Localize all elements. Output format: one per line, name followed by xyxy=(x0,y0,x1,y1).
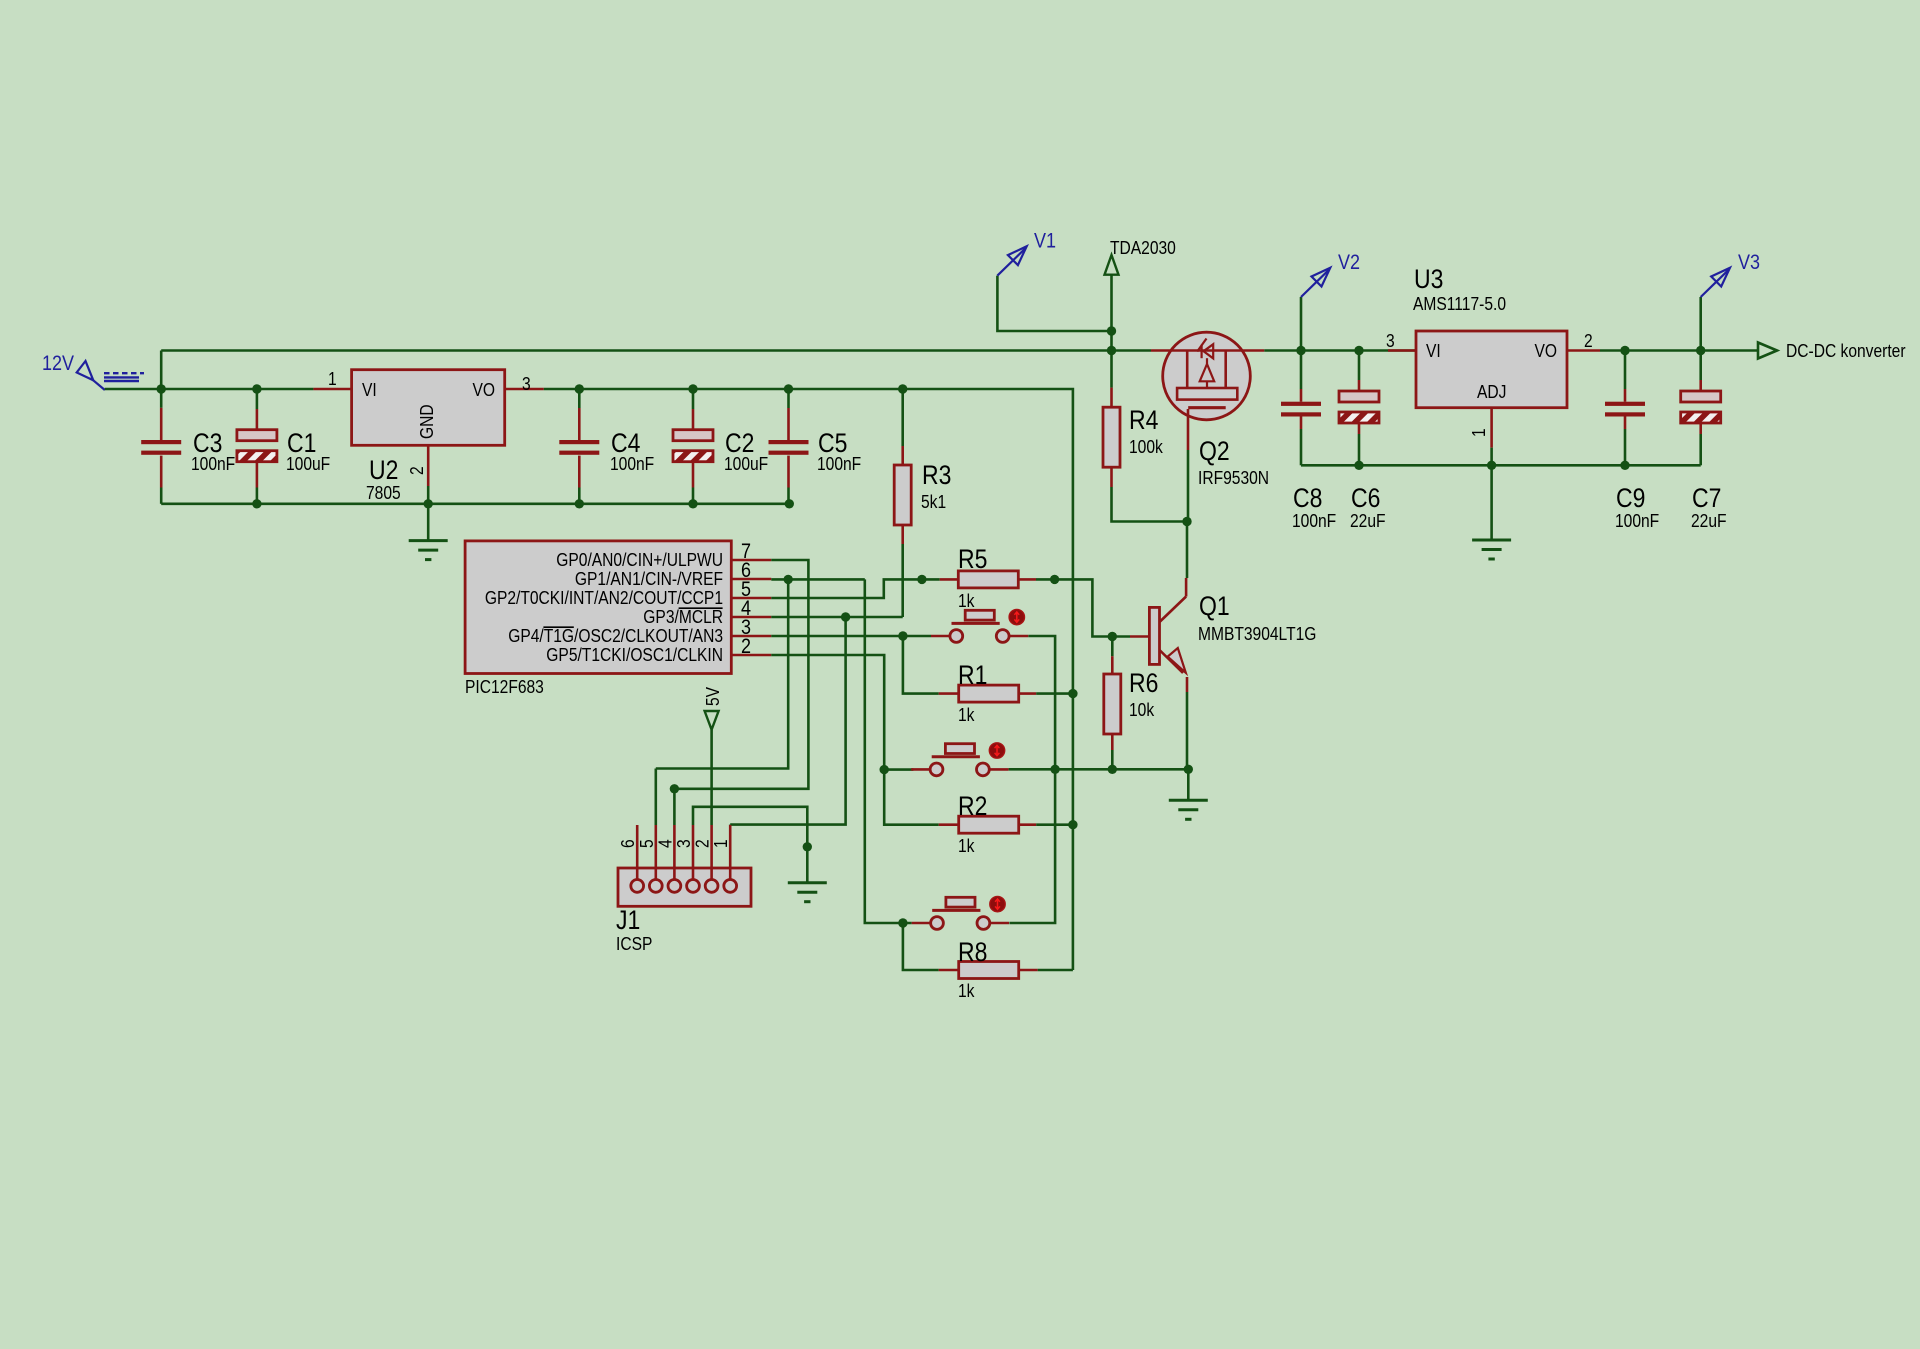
svg-text:6: 6 xyxy=(618,839,638,848)
wire GP3 row xyxy=(771,616,902,619)
wire bottom ground rail xyxy=(161,502,789,505)
resistor R6 xyxy=(1111,637,1114,657)
node button3/R8 xyxy=(898,918,907,927)
capacitor C2 xyxy=(692,389,695,409)
wire J1 pin4 stub xyxy=(654,769,657,826)
svg-text:VO: VO xyxy=(1534,341,1557,361)
svg-text:J1: J1 xyxy=(616,905,640,935)
probe V3 wire xyxy=(1699,297,1702,351)
svg-text:100nF: 100nF xyxy=(610,454,654,474)
wire rail Q2 to U3 xyxy=(1264,349,1416,352)
node rail R4 xyxy=(1107,346,1116,355)
node Q1 emitter xyxy=(1184,765,1193,774)
node C6 top xyxy=(1354,346,1363,355)
svg-text:100nF: 100nF xyxy=(191,454,235,474)
J1 pin 4 pad xyxy=(668,880,681,893)
PIC pin 5 stub xyxy=(731,597,771,600)
wire GND row xyxy=(1009,768,1189,771)
node C5 top xyxy=(784,384,793,393)
power arrow 5V xyxy=(705,711,719,730)
probe V2 xyxy=(1301,270,1329,297)
wire U3 pin3 lead xyxy=(1388,349,1416,352)
node GP3/MCLR xyxy=(841,612,850,621)
node button2/button1 xyxy=(1050,765,1059,774)
svg-text:R3: R3 xyxy=(922,460,951,490)
J1 pin 3 pad xyxy=(687,880,700,893)
svg-text:4: 4 xyxy=(655,839,675,848)
node R1 right xyxy=(1068,689,1077,698)
node R5 right xyxy=(1050,575,1059,584)
svg-text:10k: 10k xyxy=(1129,700,1155,720)
node R5 left xyxy=(917,575,926,584)
node J1 pin4 corner xyxy=(670,784,679,793)
probe V1 xyxy=(997,248,1025,275)
output arrow DC-DC xyxy=(1758,343,1777,359)
capacitor C3 xyxy=(160,389,163,408)
svg-text:R6: R6 xyxy=(1129,668,1158,698)
wire U3 pin2 lead xyxy=(1567,349,1600,352)
J1 pin 1 pad xyxy=(724,880,737,893)
wire 12V input xyxy=(105,388,314,391)
svg-text:R8: R8 xyxy=(958,937,987,967)
regulator U2 box xyxy=(352,370,505,446)
node R4/Q2 gate xyxy=(1182,517,1191,526)
svg-text:1: 1 xyxy=(711,839,731,848)
svg-text:GP3/MCLR: GP3/MCLR xyxy=(643,607,723,627)
power arrow TDA2030 xyxy=(1105,255,1119,275)
node C7/V3 xyxy=(1696,346,1705,355)
svg-text:GP2/T0CKI/INT/AN2/COUT/CCP1: GP2/T0CKI/INT/AN2/COUT/CCP1 xyxy=(485,588,723,608)
svg-text:1k: 1k xyxy=(958,591,975,611)
wire button3 right xyxy=(1009,769,1055,923)
wire GP0 to J1 pin4 xyxy=(674,560,808,789)
wire 12V riser to top rail xyxy=(160,351,163,390)
svg-text:1: 1 xyxy=(1469,428,1489,437)
svg-text:1k: 1k xyxy=(958,981,975,1001)
connector J1 box xyxy=(618,868,751,906)
node GP1/J1 pin5 xyxy=(784,575,793,584)
node C9 bottom xyxy=(1620,461,1629,470)
svg-text:GP4/T1G/OSC2/CLKOUT/AN3: GP4/T1G/OSC2/CLKOUT/AN3 xyxy=(508,626,723,646)
svg-text:2: 2 xyxy=(1584,331,1593,351)
node 12V/C3 xyxy=(157,384,166,393)
svg-text:22uF: 22uF xyxy=(1350,511,1386,531)
svg-text:Q1: Q1 xyxy=(1199,591,1230,621)
svg-text:C8: C8 xyxy=(1293,483,1322,513)
wire R5 to base node xyxy=(1055,579,1113,636)
push button 3 xyxy=(912,922,931,925)
svg-text:GP1/AN1/CIN-/VREF: GP1/AN1/CIN-/VREF xyxy=(575,569,723,589)
wire top 12V rail xyxy=(161,349,1151,352)
wire U2 pin3 lead xyxy=(505,388,544,391)
svg-text:3: 3 xyxy=(674,839,694,848)
svg-text:VI: VI xyxy=(362,380,377,400)
node V1 join xyxy=(1107,326,1116,335)
node C2 bottom xyxy=(688,499,697,508)
svg-text:100nF: 100nF xyxy=(817,454,861,474)
svg-text:2: 2 xyxy=(692,839,712,848)
node C6 bottom xyxy=(1354,461,1363,470)
J1 pin 6 pad xyxy=(631,880,644,893)
svg-text:R5: R5 xyxy=(958,544,987,574)
wire U3 pin1 lead xyxy=(1490,408,1493,448)
svg-text:MMBT3904LT1G: MMBT3904LT1G xyxy=(1198,624,1316,644)
svg-text:100uF: 100uF xyxy=(724,454,768,474)
svg-text:DC-DC konverter: DC-DC konverter xyxy=(1786,341,1906,361)
node R6 bottom xyxy=(1108,765,1117,774)
capacitor C5 xyxy=(787,389,790,408)
wire GP5 to R2 xyxy=(771,655,938,825)
Q1 emitter xyxy=(1160,650,1184,673)
svg-text:100nF: 100nF xyxy=(1292,511,1336,531)
capacitor C8 xyxy=(1300,351,1303,390)
wire VO rail xyxy=(544,389,1073,970)
Q2 source pin xyxy=(1151,349,1206,352)
node GP5/button2 xyxy=(880,765,889,774)
Q2 gate pin down xyxy=(1187,409,1190,450)
svg-text:3: 3 xyxy=(1386,331,1395,351)
Q2 internal bottom plate xyxy=(1177,388,1237,400)
push button 1 xyxy=(931,635,950,638)
svg-text:V3: V3 xyxy=(1738,251,1760,275)
resistor R3 xyxy=(901,389,904,446)
node J1 ground xyxy=(803,842,812,851)
node C4 top xyxy=(575,384,584,393)
svg-text:VI: VI xyxy=(1426,341,1441,361)
Q2 zener triangle xyxy=(1204,344,1214,358)
resistor R4 xyxy=(1110,351,1113,388)
node R3 top xyxy=(898,384,907,393)
node C2 top xyxy=(688,384,697,393)
svg-text:5k1: 5k1 xyxy=(921,492,946,512)
transistor Q2 body xyxy=(1163,332,1251,420)
wire GP1 row xyxy=(771,578,865,581)
svg-text:100uF: 100uF xyxy=(286,454,330,474)
svg-text:U2: U2 xyxy=(369,455,398,485)
probe V2 wire xyxy=(1300,297,1303,351)
node C8/V2 xyxy=(1296,346,1305,355)
node U3 ADJ xyxy=(1487,461,1496,470)
svg-text:C7: C7 xyxy=(1692,483,1721,513)
resistor R2 xyxy=(939,823,959,826)
svg-text:2: 2 xyxy=(407,466,427,475)
wire MCLR to J1 pin1 xyxy=(730,617,845,825)
PIC pin 4 stub xyxy=(731,616,771,619)
Q2 internal right bar xyxy=(1224,351,1227,389)
PIC pin 7 stub xyxy=(731,559,771,562)
capacitor C7 xyxy=(1699,351,1702,381)
svg-text:R4: R4 xyxy=(1129,405,1158,435)
wire J1 pin4 riser xyxy=(673,789,676,825)
wire emitter ground stub xyxy=(1187,769,1190,800)
svg-text:VO: VO xyxy=(472,380,495,400)
svg-text:1: 1 xyxy=(328,369,337,389)
svg-text:GP5/T1CKI/OSC1/CLKIN: GP5/T1CKI/OSC1/CLKIN xyxy=(546,645,723,665)
resistor R1 xyxy=(939,692,959,695)
wire GP4 row xyxy=(771,635,931,638)
svg-text:2: 2 xyxy=(741,635,751,659)
svg-text:5: 5 xyxy=(637,839,657,848)
node C4 bottom xyxy=(575,499,584,508)
PIC pin 3 stub xyxy=(731,635,771,638)
wire GP1 to button3 xyxy=(865,579,912,923)
regulator U3 box xyxy=(1416,331,1567,408)
svg-text:ADJ: ADJ xyxy=(1477,382,1506,402)
ground J1 xyxy=(788,881,827,884)
wire right ground rail xyxy=(1301,464,1701,467)
svg-text:ICSP: ICSP xyxy=(616,934,652,954)
svg-text:R1: R1 xyxy=(958,660,987,690)
probe V3 xyxy=(1701,270,1729,297)
DC source symbol xyxy=(91,378,105,390)
wire button3 to R8 xyxy=(903,923,939,970)
wire J1 pin3 to ground xyxy=(693,807,807,883)
svg-text:C6: C6 xyxy=(1351,483,1380,513)
svg-text:AMS1117-5.0: AMS1117-5.0 xyxy=(1413,294,1506,314)
wire button2 left stub xyxy=(884,768,913,771)
svg-text:5V: 5V xyxy=(703,686,723,706)
svg-text:100nF: 100nF xyxy=(1615,511,1659,531)
PIC pin 6 stub xyxy=(731,578,771,581)
wire Q2 gate to Q1 xyxy=(1186,522,1189,579)
svg-text:TDA2030: TDA2030 xyxy=(1110,238,1176,258)
wire Q1 base lead xyxy=(1112,635,1130,638)
node C5 bottom xyxy=(785,499,794,508)
wire U2 pin1 lead xyxy=(313,388,351,391)
PIC pin 2 stub xyxy=(731,654,771,657)
svg-text:V2: V2 xyxy=(1338,251,1360,275)
capacitor C9 xyxy=(1624,351,1627,390)
capacitor C4 xyxy=(578,389,581,408)
J1 pin 5 pad xyxy=(649,880,662,893)
svg-text:V1: V1 xyxy=(1034,229,1056,253)
ground U2 xyxy=(409,539,448,542)
wire U3 ground stub xyxy=(1490,465,1493,540)
resistor R8 xyxy=(939,969,959,972)
svg-text:3: 3 xyxy=(522,374,531,394)
svg-text:12V: 12V xyxy=(42,352,75,376)
svg-text:1k: 1k xyxy=(958,705,975,725)
node C9 top xyxy=(1620,346,1629,355)
Q2 body diode xyxy=(1200,364,1215,381)
svg-text:GP0/AN0/CIN+/ULPWU: GP0/AN0/CIN+/ULPWU xyxy=(556,550,723,570)
svg-text:R2: R2 xyxy=(958,791,987,821)
capacitor C6 xyxy=(1358,351,1361,381)
wire J1 pin2 to 5V xyxy=(710,730,713,825)
svg-text:U3: U3 xyxy=(1414,264,1443,294)
Q2 internal gate bar xyxy=(1188,406,1226,409)
Q2 internal left bar xyxy=(1186,351,1189,389)
wire GP4 to R1 xyxy=(903,636,939,694)
wire J1 pin1 stub xyxy=(729,823,732,826)
Q1 collector xyxy=(1160,597,1187,623)
svg-text:100k: 100k xyxy=(1129,437,1163,457)
capacitor C1 xyxy=(256,389,259,409)
Q2 drain pin xyxy=(1206,349,1264,352)
ground Q1 emitter xyxy=(1169,799,1208,802)
svg-text:IRF9530N: IRF9530N xyxy=(1198,468,1269,488)
wire TDA2030 to rail xyxy=(1110,275,1113,351)
node R2 right xyxy=(1068,820,1077,829)
node U2 GND xyxy=(424,499,433,508)
svg-text:PIC12F683: PIC12F683 xyxy=(465,677,544,697)
resistor R5 xyxy=(940,578,959,581)
transistor Q1 bar xyxy=(1149,607,1159,664)
svg-text:7805: 7805 xyxy=(366,483,401,503)
node Q1 base xyxy=(1108,632,1117,641)
wire output rail xyxy=(1625,349,1758,352)
wire U2 pin2 lead xyxy=(427,445,430,486)
wire button1 right xyxy=(1028,636,1055,769)
node GP4/button1 xyxy=(898,631,907,640)
svg-text:1k: 1k xyxy=(958,836,975,856)
J1 pin 2 pad xyxy=(705,880,718,893)
push button 2 xyxy=(911,768,930,771)
Q2 zener bar xyxy=(1200,345,1202,359)
svg-text:22uF: 22uF xyxy=(1691,511,1727,531)
probe V1 wire xyxy=(997,276,1111,331)
microcontroller U? PIC12F683 box xyxy=(465,541,731,674)
node 12V/C1 xyxy=(252,384,261,393)
wire GP2 to R5 xyxy=(771,579,939,598)
wire U2 ground stub xyxy=(427,504,430,541)
wire J1 pin5 link xyxy=(656,579,788,768)
ground U3 xyxy=(1472,539,1511,542)
svg-text:Q2: Q2 xyxy=(1199,436,1230,466)
node C1 bottom xyxy=(252,499,261,508)
svg-text:C9: C9 xyxy=(1616,483,1645,513)
svg-text:GND: GND xyxy=(417,404,437,439)
